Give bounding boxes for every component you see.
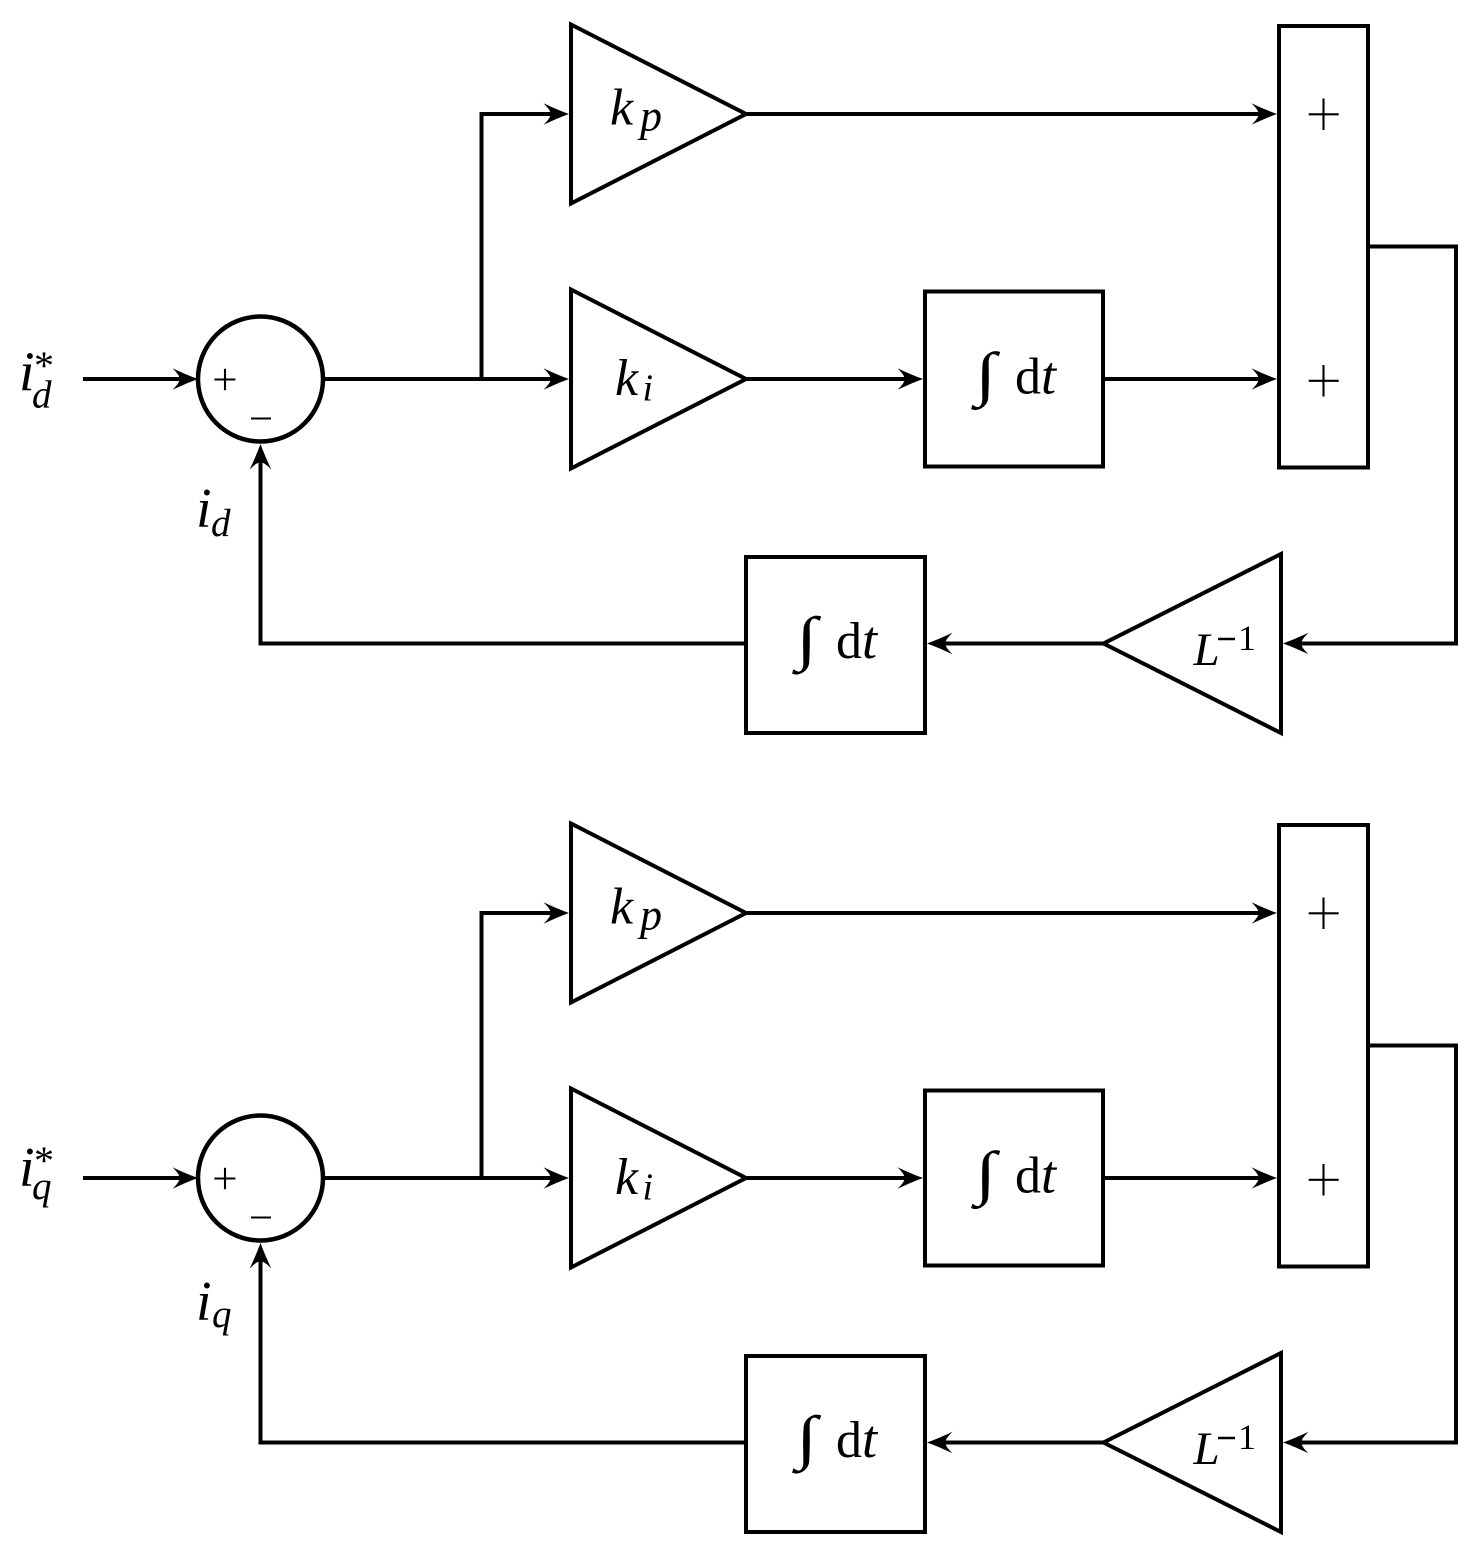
arrowhead branch into kp — [544, 103, 570, 125]
svg-text:d: d — [1015, 349, 1041, 406]
node label i_d* (reference input, d axis) — [19, 342, 54, 417]
integrator block (forward path) — [925, 1091, 1103, 1266]
integrator block (feedback path) — [746, 557, 925, 733]
plus sign top input of adder — [1309, 898, 1339, 930]
arrowhead ki into integrator — [898, 368, 924, 390]
svg-text:t: t — [1041, 1145, 1058, 1205]
svg-text:1: 1 — [1238, 1417, 1256, 1457]
label L^-1 — [1193, 618, 1257, 676]
label integral dt (forward) — [971, 341, 1058, 411]
gain block L^-1 (triangle pointing left) — [1104, 554, 1282, 733]
gain block kp (triangle) — [571, 824, 746, 1003]
integrator block (forward path) — [925, 292, 1103, 467]
node label i_d (feedback signal, d axis) — [196, 478, 231, 545]
arrowhead integrator into adder — [1252, 368, 1278, 390]
svg-text:d: d — [211, 502, 231, 545]
summing junction (circle, + reference, - feedback) — [198, 1116, 323, 1241]
svg-text:q: q — [212, 1293, 232, 1336]
svg-text:d: d — [32, 374, 52, 417]
gain block ki (triangle) — [571, 290, 746, 469]
arrowhead error into ki — [544, 368, 570, 390]
arrowhead into L^-1 — [1283, 633, 1309, 655]
wire: L^-1 output into feedback integrator — [943, 642, 1104, 646]
svg-text:k: k — [610, 80, 634, 137]
arrowhead kp into adder — [1252, 902, 1278, 924]
wire: adder output tap going right and down to L^-1 — [1299, 247, 1456, 644]
arrowhead input id* — [173, 368, 199, 390]
plus sign inside summing junction — [214, 1168, 235, 1189]
svg-text:i: i — [643, 1167, 654, 1209]
plus sign bottom input of adder — [1309, 1164, 1339, 1196]
gain block L^-1 (triangle pointing left) — [1104, 1353, 1282, 1532]
wire: feedback id back to summing junction — [261, 458, 747, 644]
arrowhead feedback id into summing junction — [250, 444, 272, 470]
plus sign bottom input of adder — [1309, 365, 1339, 397]
label kp — [610, 80, 662, 141]
wire: branch up to kp gain — [482, 913, 554, 1178]
svg-text:k: k — [610, 879, 634, 936]
minus sign inside summing junction — [251, 1216, 271, 1218]
integrator block (feedback path) — [746, 1356, 925, 1532]
label integral dt (feedback) — [792, 1404, 879, 1474]
svg-text:q: q — [32, 1165, 52, 1208]
label ki — [615, 350, 653, 410]
plus sign inside summing junction — [214, 369, 235, 390]
arrowhead into feedback integrator — [927, 633, 953, 655]
wire: input iq* reference into summing junction — [83, 1176, 182, 1180]
svg-text:i: i — [643, 368, 654, 410]
wire: integrator output to adder — [1103, 1176, 1261, 1180]
arrowhead integrator into adder — [1252, 1167, 1278, 1189]
adder block (tall rectangle) — [1279, 26, 1368, 468]
svg-text:1: 1 — [1238, 618, 1256, 658]
svg-text:d: d — [1015, 1148, 1041, 1205]
wire: ki output to integrator — [746, 377, 907, 381]
wire: integrator output to adder — [1103, 377, 1261, 381]
summing junction (circle, + reference, - feedback) — [198, 317, 323, 442]
svg-text:i: i — [196, 478, 212, 540]
arrowhead feedback iq into summing junction — [250, 1243, 272, 1269]
arrowhead kp into adder — [1252, 103, 1278, 125]
svg-text:d: d — [836, 613, 862, 670]
label integral dt (feedback) — [792, 605, 879, 675]
svg-text:k: k — [615, 350, 639, 407]
svg-text:L: L — [1193, 624, 1220, 676]
arrowhead error into ki — [544, 1167, 570, 1189]
gain block kp (triangle) — [571, 25, 746, 204]
label kp — [610, 879, 662, 940]
node label i_q* (reference input, q axis) — [19, 1137, 54, 1208]
svg-text:t: t — [862, 610, 879, 670]
svg-text:p: p — [637, 891, 662, 940]
arrowhead into L^-1 — [1283, 1432, 1309, 1454]
arrowhead ki into integrator — [898, 1167, 924, 1189]
wire: feedback iq back to summing junction — [261, 1257, 747, 1443]
wire: L^-1 output into feedback integrator — [943, 1441, 1104, 1445]
arrowhead into feedback integrator — [927, 1432, 953, 1454]
label ki — [615, 1149, 653, 1209]
minus sign inside summing junction — [251, 417, 271, 419]
wire: input id* reference into summing junction — [83, 377, 182, 381]
wire: error signal from summing junction, with branch node up to kp — [323, 377, 553, 381]
adder block (tall rectangle) — [1279, 825, 1368, 1267]
node label i_q (feedback signal, q axis) — [196, 1271, 232, 1336]
svg-text:p: p — [637, 92, 662, 141]
svg-text:k: k — [615, 1149, 639, 1206]
arrowhead input iq* — [173, 1167, 199, 1189]
plus sign top input of adder — [1309, 99, 1339, 131]
svg-text:t: t — [862, 1409, 879, 1469]
wire: branch up to kp gain — [482, 114, 554, 379]
wire: error signal from summing junction, with branch node up to kp — [323, 1176, 553, 1180]
wire: kp output to adder — [746, 911, 1261, 915]
gain block ki (triangle) — [571, 1089, 746, 1268]
wire: kp output to adder — [746, 112, 1261, 116]
label integral dt (forward) — [971, 1140, 1058, 1210]
svg-text:L: L — [1193, 1423, 1220, 1475]
wire: adder output tap going right and down to L^-1 — [1299, 1046, 1456, 1443]
svg-text:t: t — [1041, 346, 1058, 406]
svg-text:i: i — [196, 1271, 212, 1333]
wire: ki output to integrator — [746, 1176, 907, 1180]
svg-text:d: d — [836, 1412, 862, 1469]
arrowhead branch into kp — [544, 902, 570, 924]
label L^-1 — [1193, 1417, 1257, 1475]
